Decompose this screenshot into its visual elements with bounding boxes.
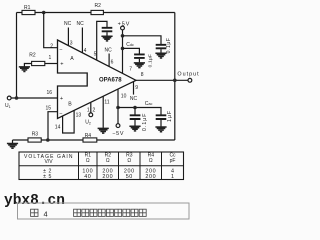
svg-text:1μF: 1μF [167,110,173,122]
svg-text:Cdc: Cdc [126,42,134,48]
capacitor Cac [134,108,136,115]
pin 3 NC stub [67,28,69,46]
svg-text:U1: U1 [5,103,11,109]
svg-text:−5V: −5V [112,131,124,137]
svg-text:Ω: Ω [86,158,90,164]
svg-text:6: 6 [111,60,114,66]
wire -5V bypass rail [118,108,161,115]
table [19,152,184,180]
svg-text:4: 4 [84,48,87,54]
wire R2 to right rail [103,12,174,14]
ground Cac [129,126,140,131]
svg-text:16: 16 [47,90,53,96]
node +5V lower [121,47,125,51]
wire to 0.1uF cap top right [123,36,162,44]
wire U1 to pin16 [11,97,57,99]
svg-text:NC: NC [130,96,138,102]
svg-text:U2: U2 [85,120,91,126]
terminal U1 input [7,96,11,100]
terminal -5V [116,124,120,128]
svg-text:OPA678: OPA678 [99,77,122,83]
node +5V upper [121,34,125,38]
svg-text:50: 50 [126,174,133,180]
svg-text:4: 4 [44,209,48,218]
ground Cdc [134,63,145,68]
ground at R2 bias [24,64,31,67]
svg-text:9: 9 [135,85,138,91]
svg-text:0.1μF: 0.1μF [147,54,152,68]
wire bottom rail [13,139,175,141]
ground 0.1uF top right [155,53,166,58]
resistor R4 [83,138,97,142]
svg-text:3: 3 [70,41,73,47]
wire left input rail [16,13,18,99]
svg-text:R1: R1 [24,5,31,11]
resistor R3 [28,138,41,142]
svg-text:15: 15 [46,105,52,111]
svg-text:V/V: V/V [44,159,53,165]
svg-text:5: 5 [94,52,97,58]
ground pin11 [98,128,109,133]
svg-text:8: 8 [141,72,144,78]
svg-text:40: 40 [84,174,91,180]
wire +5V to pin7 [122,30,124,74]
svg-text:0.1μF: 0.1μF [166,38,172,54]
svg-text:10: 10 [121,93,127,99]
node Cac branch [133,106,137,110]
svg-text:NC: NC [105,48,113,54]
capacitor 1uF [156,115,167,119]
wire right feedback rail [174,13,176,141]
node input rail junction [15,96,19,100]
svg-text:NC: NC [77,21,85,27]
svg-text:Ω: Ω [127,158,131,164]
node pin15 junction [46,138,50,142]
capacitor 0.1uF top right [156,45,167,49]
svg-text:1: 1 [49,55,52,61]
svg-text:Cac: Cac [145,101,153,107]
svg-text:7: 7 [129,66,132,72]
pin 6 NC stub [108,54,110,67]
wire R1 to summing node [35,12,91,14]
caption figure 4 [31,209,38,216]
svg-text:R3: R3 [32,131,39,137]
svg-text:14: 14 [55,125,61,131]
svg-text:B: B [68,102,72,108]
wire pin15 to bottom rail [48,112,58,140]
svg-text:0.1μF: 0.1μF [142,113,148,131]
pin 10 wire to -5V [117,89,119,124]
terminal Output [188,78,192,82]
resistor R2 feedback [91,10,103,14]
svg-text:R2: R2 [29,52,36,58]
svg-text:1: 1 [171,174,174,180]
svg-text:A: A [70,56,74,62]
svg-text:Ω: Ω [149,158,153,164]
capacitor pin5 bypass [102,28,113,32]
svg-text:−: − [59,48,62,54]
svg-text:200: 200 [102,174,113,180]
svg-text:+: + [60,96,63,102]
svg-text:13: 13 [76,113,82,119]
svg-text:−: − [59,111,62,117]
pin 9 NC stub [133,82,135,95]
svg-text:2: 2 [93,108,96,114]
wire R2 bias to pin1 [45,63,58,65]
svg-text:ybx8.cn: ybx8.cn [4,193,65,209]
svg-text:± 5: ± 5 [43,174,52,180]
capacitor Cdc [134,54,145,58]
svg-text:NC: NC [64,21,72,27]
svg-text:R2: R2 [95,3,102,9]
svg-text:200: 200 [145,174,156,180]
resistor R1 [22,10,35,14]
pin 12 stub [90,102,92,113]
svg-text:Ω: Ω [106,158,110,164]
pin 11 wire to ground [102,96,104,128]
svg-text:+: + [60,61,63,67]
pin 8 output wire [136,79,188,81]
ground pin5 cap [101,36,112,41]
node summing junction [42,11,46,15]
svg-text:Output: Output [177,71,199,77]
pin 4 NC stub [81,28,83,53]
wire to Cdc cap [123,48,140,53]
resistor R2 bias [32,61,45,65]
svg-text:11: 11 [104,100,109,106]
terminal U2 [89,113,93,117]
caption box [18,203,190,219]
svg-text:pF: pF [170,158,176,164]
wire pin2 from summing node [44,13,58,48]
node output junction [173,79,177,83]
wire pin13 pin14 loop [63,111,75,134]
svg-text:R4: R4 [85,133,92,139]
node -5V rail [116,106,120,110]
svg-text:2: 2 [50,43,53,49]
op-amp U1 OPA678 [58,40,137,119]
ground 1uF [155,127,166,132]
wire top rail segment U1 node to R1 [17,12,23,14]
ground R3 left [12,140,14,143]
pin 5 wire to bypass cap [97,21,107,60]
